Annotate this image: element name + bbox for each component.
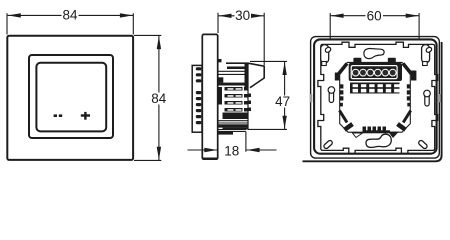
svg-text:60: 60 xyxy=(367,9,382,24)
mech arm upper-left xyxy=(339,64,348,75)
svg-text:84: 84 xyxy=(62,7,78,22)
back view shadow line xyxy=(303,42,442,161)
dimension 47 xyxy=(248,61,287,129)
back view inner plate xyxy=(314,39,437,153)
central mech octagon outline xyxy=(340,62,411,132)
dimension 84 right xyxy=(134,35,161,160)
front view middle square xyxy=(29,55,113,138)
mech arm upper-right xyxy=(403,64,412,75)
front view inner square xyxy=(36,63,106,132)
terminal tabs xyxy=(353,58,361,64)
mech side nubs right xyxy=(407,84,411,106)
dimension 60 xyxy=(330,13,419,39)
dimension 30 xyxy=(218,13,264,65)
side view plate bottom thick edge xyxy=(203,157,218,159)
fin thin lines xyxy=(218,71,248,131)
plus button xyxy=(81,112,90,120)
dimension 84 top xyxy=(7,13,133,34)
mech side nubs left xyxy=(340,84,344,106)
side mechanism outline top xyxy=(226,63,264,87)
mech corner bracket lower-left xyxy=(340,111,348,123)
claw wedge bottom-right xyxy=(388,132,399,139)
keyhole mid-left xyxy=(328,87,335,103)
slot bottom-center peanut xyxy=(366,134,391,147)
keyhole top-left xyxy=(321,45,332,66)
gray bar left xyxy=(310,94,313,102)
slot bottom-left xyxy=(323,140,333,150)
side view wall plate xyxy=(202,34,217,159)
slot top-center xyxy=(364,48,384,58)
svg-text:18: 18 xyxy=(224,144,239,159)
keyhole top-right xyxy=(422,45,433,66)
side mechanism top nub xyxy=(218,59,222,62)
dimension 18 xyxy=(188,132,277,152)
mech bottom teeth xyxy=(363,127,391,134)
front view outer square xyxy=(7,36,133,160)
slot bottom-right xyxy=(418,140,428,150)
claw outline left xyxy=(353,133,363,138)
back view ledge outline with claw jogs xyxy=(318,42,438,153)
comb grid xyxy=(350,83,400,94)
mech bottom arm left xyxy=(345,124,353,130)
side mechanism right face xyxy=(247,63,249,130)
mech corner bracket lower-right xyxy=(403,111,411,123)
frame clip slots xyxy=(196,67,202,124)
minus button xyxy=(54,114,63,117)
svg-text:30: 30 xyxy=(235,8,250,23)
terminal block xyxy=(349,63,402,81)
gray bar right xyxy=(438,94,441,102)
back view outer square xyxy=(311,37,440,159)
fin white dashes xyxy=(228,88,242,111)
keyhole mid-right xyxy=(424,90,431,106)
terminal screws xyxy=(352,69,396,76)
side view frame box xyxy=(192,65,202,132)
side mechanism fins xyxy=(218,63,251,135)
mech bottom arm right xyxy=(398,124,406,130)
svg-text:47: 47 xyxy=(275,94,290,109)
terminal window inset xyxy=(351,66,397,79)
svg-text:84: 84 xyxy=(151,91,167,106)
